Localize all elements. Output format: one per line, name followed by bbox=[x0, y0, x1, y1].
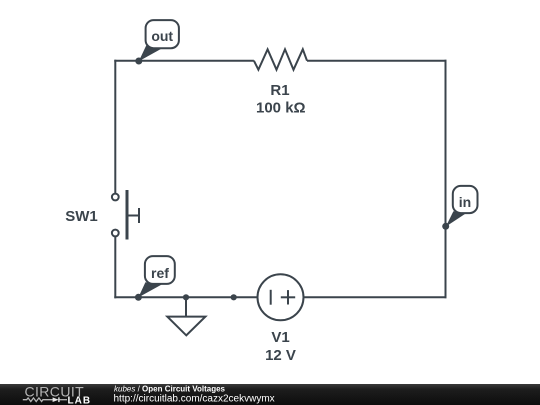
svg-text:ref: ref bbox=[151, 265, 169, 281]
svg-text:LAB: LAB bbox=[68, 396, 92, 405]
CircuitLab logo diode bbox=[53, 397, 59, 402]
wire: left vertical rail, lower segment (SW1 bottom terminal to bottom-left corner) bbox=[114, 237, 116, 299]
svg-text:100 kΩ: 100 kΩ bbox=[256, 100, 306, 117]
resistor R1 (zigzag body) bbox=[254, 49, 307, 69]
CircuitLab logo resistor zigzag bbox=[23, 398, 53, 402]
svg-text:out: out bbox=[151, 28, 173, 44]
svg-text:V1: V1 bbox=[271, 329, 289, 346]
footer bar background bbox=[0, 384, 540, 405]
wire: bottom rail, right segment (V1 positive terminal to bottom-right corner) bbox=[304, 296, 447, 298]
wire: bottom rail, left segment (node ref through ground junction to V1 negative terminal) bbox=[114, 296, 257, 298]
wire: left vertical rail, upper segment (top-left corner to SW1 top terminal) bbox=[114, 60, 116, 194]
svg-text:kubes / Open Circuit Voltages: kubes / Open Circuit Voltages bbox=[114, 385, 226, 394]
node out (named net flag on top rail) bbox=[135, 20, 179, 64]
wire: top rail, left segment (node out to resistor R1 left lead) bbox=[114, 60, 254, 62]
svg-text:in: in bbox=[459, 194, 471, 210]
svg-text:SW1: SW1 bbox=[65, 208, 98, 225]
wire: top rail, right segment (resistor R1 right lead to top-right corner) bbox=[307, 60, 447, 62]
svg-text:http://circuitlab.com/cazx2cek: http://circuitlab.com/cazx2cekvwymx bbox=[114, 394, 275, 405]
node in (named net flag on right rail) bbox=[442, 186, 477, 230]
svg-text:R1: R1 bbox=[270, 82, 289, 99]
ground bbox=[167, 297, 205, 335]
svg-text:12 V: 12 V bbox=[265, 347, 296, 364]
junction dot at ground tap on bottom rail bbox=[183, 294, 189, 300]
node ref (named net flag on bottom rail) bbox=[135, 256, 175, 301]
switch SW1 (normally-open pushbutton) bbox=[112, 190, 139, 240]
wire: right vertical rail (top-right corner through node in to bottom-right corner) bbox=[445, 60, 447, 299]
junction dot on bottom rail left of V1 bbox=[231, 294, 237, 300]
voltage source V1 (DC source circle with - and + marks) bbox=[258, 274, 304, 320]
CircuitLab logo wire to LAB bbox=[60, 399, 68, 401]
